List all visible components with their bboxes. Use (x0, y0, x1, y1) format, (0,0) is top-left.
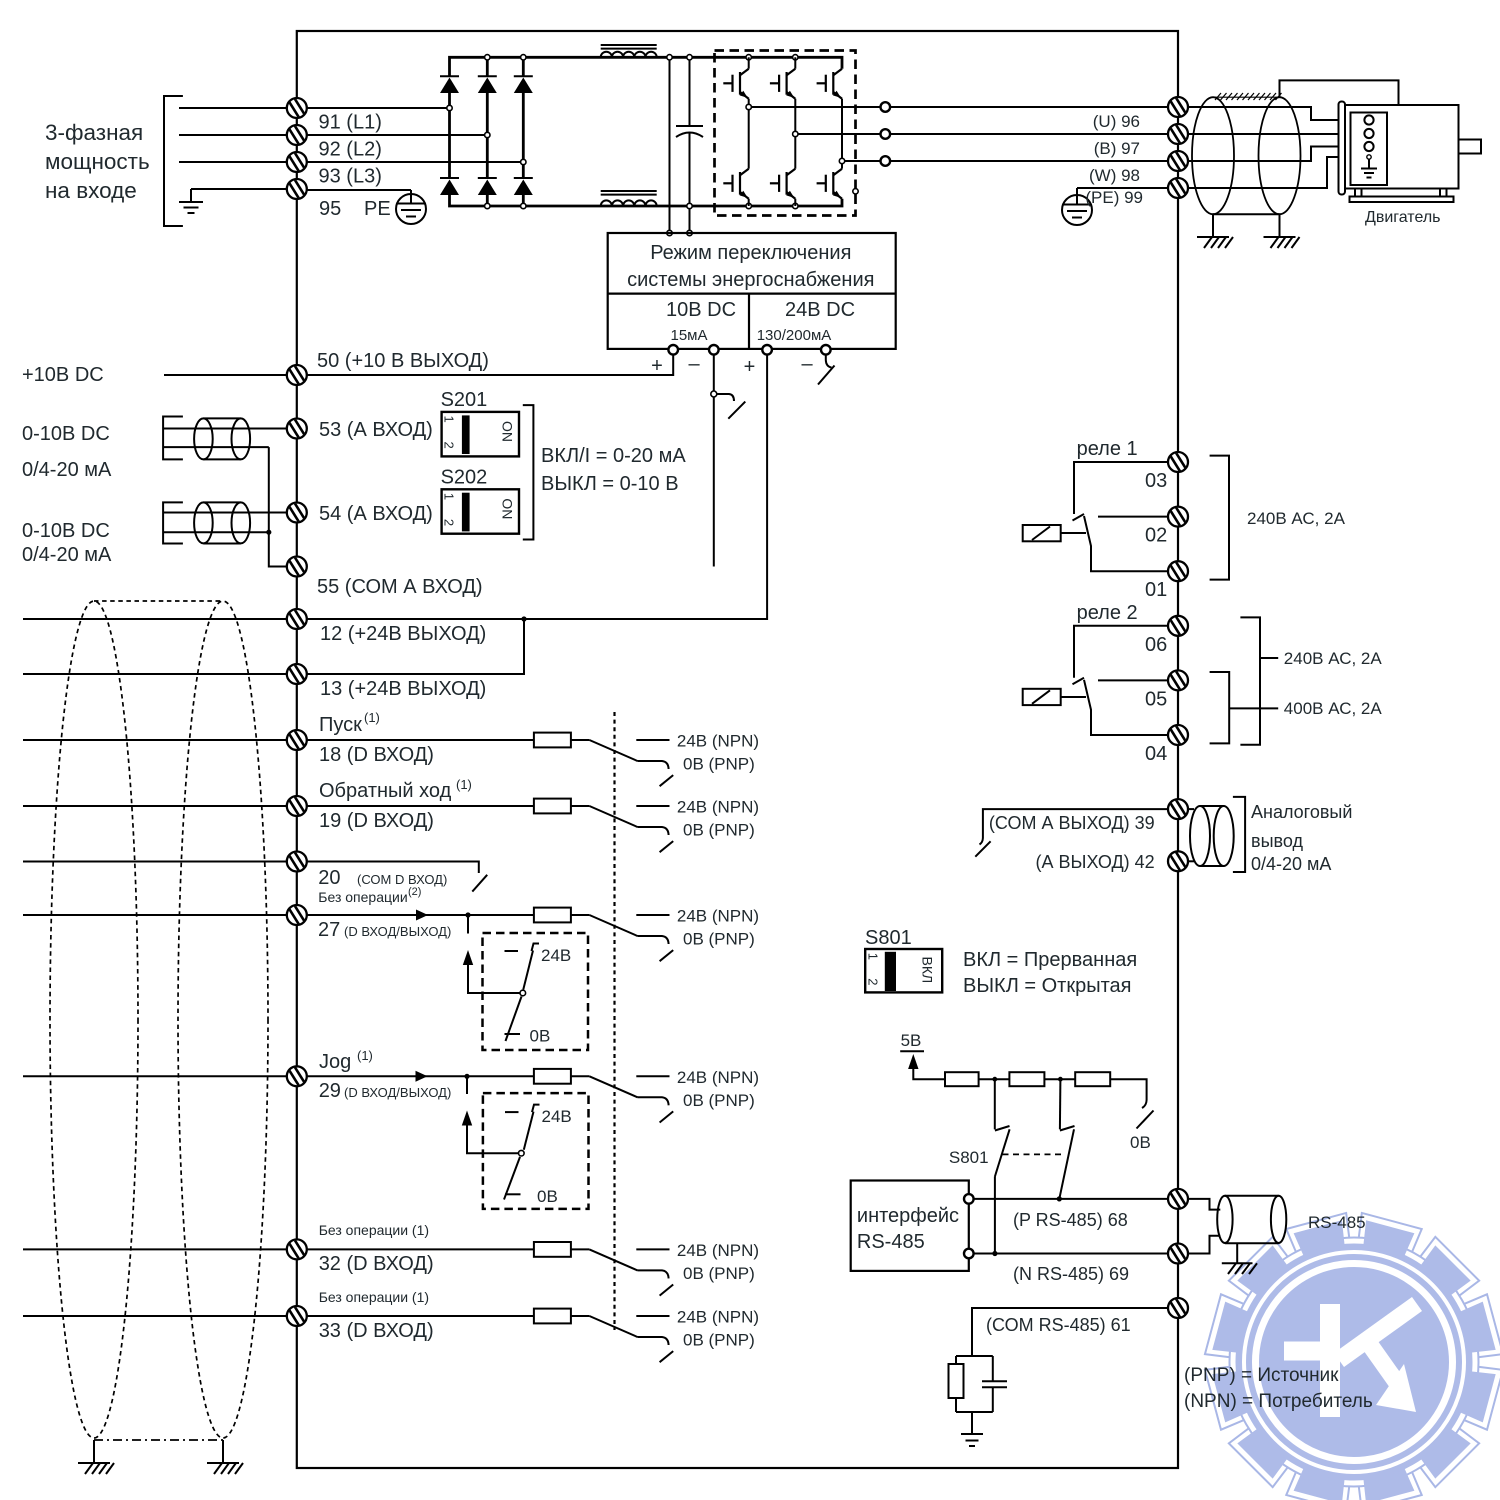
svg-text:24В: 24В (542, 1107, 572, 1126)
wire 33 after resistor (571, 1315, 590, 1317)
wire left 27 (23, 914, 287, 916)
wire 61 to RC (972, 1308, 1168, 1356)
svg-text:(D ВХОД/ВЫХОД): (D ВХОД/ВЫХОД) (344, 924, 451, 939)
dashed link S801 (1003, 1153, 1064, 1155)
wire left 18 (23, 739, 287, 741)
junction analog common (266, 530, 271, 535)
relay 2 pivot tick (1073, 678, 1085, 685)
label Obratny hod (319, 777, 472, 802)
wire output U phase (749, 106, 881, 108)
SMPS terminal 10V minus (709, 345, 719, 355)
analog pair2 shield cylinder (194, 502, 250, 543)
RS-485 interface box (851, 1181, 969, 1271)
wire U into motor (1188, 107, 1364, 120)
wire 27 after resistor (571, 914, 590, 916)
wire analog common vertical (269, 447, 287, 566)
wire 91 to rectifier (307, 107, 450, 109)
svg-text:(D ВХОД/ВЫХОД): (D ВХОД/ВЫХОД) (344, 1085, 451, 1100)
motor terminal box (1351, 113, 1388, 186)
SMPS terminal 24V minus (821, 345, 831, 355)
wire L2 input (179, 134, 287, 136)
wire 93 to rectifier (307, 161, 524, 163)
svg-text:240В АС, 2А: 240В АС, 2А (1247, 509, 1346, 528)
stub 27 PNP with break (638, 936, 674, 961)
wire 92 to rectifier (307, 134, 488, 136)
terminal 39 (1168, 799, 1188, 819)
node output U (746, 104, 751, 109)
terminal 06 (1168, 616, 1188, 636)
analog pair2 bracket (163, 502, 183, 543)
PE earth circle right (1062, 195, 1092, 225)
motor foot left (1355, 189, 1362, 197)
label Jog (319, 1048, 373, 1073)
wire U to terminal 96 (890, 106, 1168, 108)
svg-text:PE: PE (364, 198, 391, 220)
chassis ground shield right (1264, 237, 1300, 248)
motor foot right (1440, 189, 1447, 197)
svg-text:(W) 98: (W) 98 (1089, 166, 1140, 185)
svg-text:интерфейс: интерфейс (857, 1205, 959, 1227)
motor cable shield ellipse 1 (1192, 97, 1234, 214)
5V source (900, 1031, 945, 1079)
shield ground stub left (93, 1440, 95, 1463)
svg-text:+10В DC: +10В DC (22, 364, 104, 386)
svg-text:Без операции (1): Без операции (1) (319, 1222, 429, 1238)
svg-text:03: 03 (1145, 470, 1167, 492)
diode D3 bottom (514, 178, 533, 206)
svg-text:400В АС, 2А: 400В АС, 2А (1284, 699, 1383, 718)
wire 33 (307, 1315, 534, 1317)
wire 19 after resistor (571, 805, 590, 807)
svg-text:(1): (1) (357, 1048, 373, 1063)
wire V into motor (1188, 133, 1364, 135)
break circle on 10V minus wire (711, 391, 746, 419)
wire 68 to cable (1188, 1199, 1220, 1210)
terminal 03 (1168, 452, 1188, 472)
break hook 24V minus (818, 354, 835, 384)
RS-485 cable cylinder (1217, 1196, 1286, 1244)
svg-text:33 (D ВХОД): 33 (D ВХОД) (319, 1320, 434, 1342)
svg-text:1: 1 (866, 953, 881, 960)
wire 27 branch down (467, 915, 469, 934)
switch 29 contact 0V (505, 1193, 521, 1195)
relay 2 outer bracket (1240, 617, 1278, 744)
svg-text:(B) 97: (B) 97 (1094, 139, 1140, 158)
stub 18 NPN (636, 739, 669, 741)
svg-text:2: 2 (866, 978, 881, 985)
control cable shield dashed ellipse 1 (50, 601, 138, 1438)
wire W into motor (1188, 147, 1364, 162)
svg-text:реле 1: реле 1 (1077, 438, 1138, 460)
svg-text:Двигатель: Двигатель (1365, 209, 1441, 226)
svg-text:24В: 24В (541, 946, 571, 965)
svg-text:13 (+24В ВЫХОД): 13 (+24В ВЫХОД) (320, 678, 486, 700)
terminal 96 (1168, 97, 1188, 117)
terminal 97 (1168, 124, 1188, 144)
svg-text:RS-485: RS-485 (1308, 1213, 1366, 1232)
wire 69 to cable (1188, 1236, 1220, 1254)
S201/S202 bracket (523, 405, 534, 539)
svg-text:91 (L1): 91 (L1) (319, 112, 382, 134)
svg-text:50 (+10 В ВЫХОД): 50 (+10 В ВЫХОД) (317, 350, 489, 372)
terminal 33 (287, 1306, 307, 1326)
terminal 92 (287, 125, 307, 145)
svg-text:20: 20 (318, 867, 340, 889)
svg-text:95: 95 (319, 198, 341, 220)
node output W (839, 158, 844, 163)
wire 10V plus to terminal 50 (307, 354, 673, 375)
motor body (1345, 105, 1459, 189)
wire L1 input (179, 107, 287, 109)
svg-text:ON: ON (500, 421, 516, 442)
switch box 27 dashed (483, 933, 589, 1050)
terminal 50 (287, 365, 307, 385)
node DC+ right (687, 55, 692, 60)
svg-text:0В: 0В (537, 1187, 558, 1206)
svg-text:10В DC: 10В DC (666, 299, 736, 321)
wire 18 after resistor (571, 739, 590, 741)
relay 1 coil (1023, 525, 1086, 541)
stub 19 NPN (636, 805, 669, 807)
svg-text:24В (NPN): 24В (NPN) (677, 1308, 759, 1327)
rectifier bottom bus (450, 195, 843, 206)
circle P output (964, 1194, 974, 1204)
svg-text:+: + (744, 356, 756, 378)
node DC- bottom (687, 203, 692, 208)
svg-text:Jog: Jog (319, 1051, 351, 1073)
svg-text:(СОМ А ВЫХОД) 39: (СОМ А ВЫХОД) 39 (989, 813, 1155, 833)
transistor IGBT bottom col3 (817, 161, 842, 199)
node DC+ left (667, 55, 672, 60)
motor shaft (1459, 140, 1482, 154)
wire 19 diagonal (589, 806, 637, 827)
label Bez operacii 27 (318, 886, 421, 905)
svg-text:S801: S801 (949, 1148, 989, 1167)
terminal 05 (1168, 670, 1188, 690)
diode D2 bottom (478, 178, 497, 206)
wire 42 to cylinder (1188, 860, 1194, 862)
svg-text:Режим переключения: Режим переключения (650, 242, 851, 264)
terminal 68 (1168, 1189, 1188, 1209)
terminal 53 (287, 418, 307, 438)
junction 13-12 (521, 616, 526, 621)
wire 39 to cylinder (1188, 808, 1194, 810)
node 93-rectifier (521, 159, 526, 164)
chassis ground shield left (1197, 237, 1233, 248)
relay 1 wiper (1084, 516, 1168, 571)
junction N switch1 (992, 1251, 997, 1256)
ground input earth (179, 189, 203, 213)
switch 27 contact 0V (505, 1033, 521, 1035)
control cable shield dashed ellipse 2 (178, 601, 268, 1438)
svg-text:15мА: 15мА (670, 327, 707, 344)
svg-text:системы энергоснабжения: системы энергоснабжения (627, 269, 874, 291)
svg-text:реле 2: реле 2 (1077, 602, 1138, 624)
svg-text:0-10В DC: 0-10В DC (22, 520, 110, 542)
motor cable shield top hatched (1213, 93, 1282, 100)
PE earth circle (307, 190, 426, 224)
switch box 29 dashed (483, 1093, 589, 1209)
resistor R2 (1009, 1072, 1044, 1086)
DC link wire right with capacitor (676, 57, 703, 233)
svg-text:0/4-20 мА: 0/4-20 мА (22, 459, 112, 481)
svg-text:ВЫКЛ = Открытая: ВЫКЛ = Открытая (963, 975, 1131, 997)
terminal 99 (1168, 178, 1188, 198)
input bracket (164, 96, 183, 226)
node inverter bottom col1 (746, 203, 751, 208)
terminal 19 (287, 796, 307, 816)
wire output W phase (842, 160, 881, 162)
svg-text:(1): (1) (364, 710, 380, 725)
svg-text:Без операции: Без операции (318, 889, 407, 905)
label analog output (1251, 802, 1352, 874)
stub 18 PNP with break (638, 761, 674, 786)
wire N RS-485 (973, 1253, 1168, 1255)
transistor IGBT top col1 (723, 57, 748, 107)
svg-text:24В (NPN): 24В (NPN) (677, 907, 759, 926)
terminal 27 (287, 905, 307, 925)
switch S801-2 (1059, 1079, 1074, 1199)
relay 2 inner bracket (1210, 672, 1279, 743)
arrow up 27 branch (463, 950, 521, 993)
svg-text:24В DC: 24В DC (785, 299, 855, 321)
inductor L-top (601, 45, 657, 57)
svg-text:(NPN) = Потребитель: (NPN) = Потребитель (1184, 1391, 1373, 1412)
inductor L-bottom (601, 191, 657, 206)
wire +10V DC lead (164, 374, 287, 376)
analog out cable cylinder (1190, 806, 1234, 866)
RC network (949, 1356, 1008, 1412)
wire P RS-485 (973, 1198, 1168, 1200)
svg-text:S202: S202 (441, 466, 488, 488)
node inverter bottom col2 (793, 203, 798, 208)
wire left 20 (23, 861, 287, 863)
node top bus D2 (485, 55, 490, 60)
node SMPS left (667, 230, 672, 235)
resistor 19 (534, 799, 571, 814)
svg-text:130/200мА: 130/200мА (757, 327, 832, 344)
svg-text:–: – (801, 353, 813, 375)
analog pair2 wire bottom (164, 531, 269, 533)
svg-text:(2): (2) (408, 886, 421, 898)
svg-text:2: 2 (442, 519, 457, 526)
stub 27 NPN (636, 914, 669, 916)
wire W to terminal 98 (890, 160, 1168, 162)
switch S202 (441, 466, 519, 533)
wire 18 (307, 739, 534, 741)
wire left 12 (23, 618, 287, 620)
label 3-phase input power (45, 120, 150, 203)
svg-text:1: 1 (442, 493, 457, 500)
rectifier top bus (450, 57, 843, 76)
svg-text:24В (NPN): 24В (NPN) (677, 732, 759, 751)
node inverter top col2 (793, 55, 798, 60)
resistor R1 pullup (945, 1072, 979, 1086)
svg-text:19 (D ВХОД): 19 (D ВХОД) (319, 810, 434, 832)
svg-text:24В (NPN): 24В (NPN) (677, 1068, 759, 1087)
relay 1 contact NC branch (1074, 462, 1168, 514)
resistor 18 (534, 733, 571, 748)
svg-text:29: 29 (319, 1080, 341, 1102)
wire left 13 (23, 673, 287, 675)
switch S801 dip (865, 927, 942, 992)
svg-text:0В: 0В (530, 1027, 551, 1046)
circle output V (881, 129, 891, 139)
wire 33 diagonal (589, 1316, 637, 1337)
node top bus D3 (521, 55, 526, 60)
terminal 91 (287, 98, 307, 118)
stub 32 PNP with break (638, 1270, 674, 1295)
svg-text:53 (А ВХОД): 53 (А ВХОД) (319, 419, 433, 441)
wire left 29 (23, 1075, 287, 1077)
control shield top dashed line (94, 600, 223, 602)
wire 19 (307, 805, 534, 807)
wire 29 branch down (466, 1076, 468, 1094)
diode D2 top (478, 57, 497, 178)
terminal 98 (1168, 151, 1188, 171)
shield ground stub right (222, 1440, 224, 1463)
junction R1-R2 (992, 1077, 997, 1082)
resistor R3 (1075, 1072, 1110, 1086)
transistor IGBT top col2 (770, 57, 795, 134)
svg-text:вывод: вывод (1251, 831, 1303, 851)
dashed separator vertical (613, 712, 615, 1330)
terminal 20 (287, 851, 307, 871)
svg-text:на входе: на входе (45, 178, 137, 203)
motor ground (1361, 155, 1377, 178)
svg-text:(P RS-485) 68: (P RS-485) 68 (1013, 1210, 1128, 1230)
junction 29 (464, 1074, 469, 1079)
motor flange (1339, 102, 1346, 195)
terminal 18 (287, 730, 307, 750)
svg-text:+: + (651, 355, 663, 377)
stub 29 NPN (636, 1075, 669, 1077)
label 20 (318, 867, 447, 889)
stub 19 PNP with break (638, 827, 674, 852)
analog out bracket (1233, 797, 1245, 872)
wire 29 diagonal (589, 1076, 637, 1097)
terminal 01 (1168, 561, 1188, 581)
terminal 61 (1168, 1298, 1188, 1318)
control shield bottom dash-dot line (94, 1439, 223, 1441)
relay 1 bracket (1210, 456, 1229, 580)
svg-text:(СОМ RS-485) 61: (СОМ RS-485) 61 (986, 1315, 1131, 1335)
stub 33 PNP with break (638, 1337, 674, 1362)
terminal 95 (287, 179, 307, 199)
motor terminal V (1364, 129, 1373, 138)
SMPS terminal 24V plus (762, 345, 772, 355)
wire 10V minus to terminal 55 line (713, 354, 715, 566)
circle N output (964, 1249, 974, 1259)
circle output W (881, 156, 891, 166)
svg-text:04: 04 (1145, 743, 1167, 765)
switch 29 lever (504, 1112, 534, 1200)
svg-text:05: 05 (1145, 688, 1167, 710)
svg-text:0В (PNP): 0В (PNP) (683, 1264, 755, 1283)
motor cable shield bottom (1213, 213, 1280, 215)
node output V (793, 131, 798, 136)
wire PE input (191, 188, 287, 190)
label 27 (318, 919, 451, 941)
label interface RS-485 (857, 1205, 959, 1253)
svg-text:32 (D ВХОД): 32 (D ВХОД) (319, 1253, 434, 1275)
motor terminal U (1364, 115, 1373, 124)
svg-text:0В (PNP): 0В (PNP) (683, 930, 755, 949)
analog pair1 shield cylinder (194, 418, 250, 459)
svg-text:ON: ON (500, 498, 516, 519)
svg-text:(1): (1) (456, 777, 472, 792)
transistor IGBT bottom col2 (770, 134, 795, 206)
terminal 69 (1168, 1243, 1188, 1263)
svg-text:92 (L2): 92 (L2) (319, 139, 382, 161)
resistor 29 (534, 1069, 571, 1084)
terminal 29 (287, 1066, 307, 1086)
terminal 04 (1168, 725, 1188, 745)
drive enclosure frame (297, 31, 1178, 1468)
analog pair2 wire top (164, 512, 287, 514)
terminal 93 (287, 152, 307, 172)
wire L3 input (179, 161, 287, 163)
svg-text:2: 2 (442, 442, 457, 449)
analog pair1 bracket (163, 417, 183, 460)
resistor 33 (534, 1309, 571, 1324)
wire 32 (307, 1248, 534, 1250)
svg-text:1: 1 (442, 416, 457, 423)
switch S201 (441, 389, 519, 456)
wire R3 to 0V break (1110, 1079, 1153, 1128)
motor terminal W (1364, 142, 1373, 151)
shield ground stub left (1212, 214, 1214, 237)
node SMPS right (687, 230, 692, 235)
wire 29 (307, 1075, 534, 1077)
wire 24V plus to terminal 12 line (307, 354, 767, 619)
svg-text:3-фазная: 3-фазная (45, 120, 143, 145)
resistor 27 (534, 908, 571, 923)
wire 39 with break (975, 809, 1168, 857)
chassis ground control left (78, 1463, 114, 1474)
motor base plate (1350, 197, 1454, 203)
wire left 19 (23, 805, 287, 807)
wire R1-R2 (979, 1078, 1010, 1080)
transistor IGBT bottom col1 (723, 107, 748, 206)
junction 27 (465, 912, 470, 917)
svg-text:240В АС, 2А: 240В АС, 2А (1284, 649, 1383, 668)
label 29 (319, 1080, 452, 1102)
arrow on wire 29 (416, 1071, 428, 1082)
svg-text:S801: S801 (865, 927, 912, 949)
terminal 55 (287, 556, 307, 576)
diode D1 top (440, 76, 459, 178)
svg-text:24В (NPN): 24В (NPN) (677, 1241, 759, 1260)
motor cable shield ellipse 2 (1259, 97, 1301, 214)
watermark gear logo (1175, 1183, 1500, 1500)
svg-text:0В: 0В (1130, 1133, 1151, 1152)
wire shield to motor housing over top (1280, 80, 1399, 104)
chassis ground control right (207, 1463, 243, 1474)
wire PE to terminal 99 (1077, 188, 1168, 195)
svg-text:18 (D ВХОД): 18 (D ВХОД) (319, 744, 434, 766)
diode D1 bottom (440, 178, 459, 195)
node bottom bus D2 (485, 203, 490, 208)
terminal 42 (1168, 851, 1188, 871)
relay 2 contact NC branch (1074, 626, 1168, 678)
terminal 13 (287, 664, 307, 684)
svg-text:0/4-20 мА: 0/4-20 мА (1251, 854, 1331, 874)
circle on inverter box edge (853, 189, 858, 194)
wire 27 (307, 914, 534, 916)
inverter dashed box (715, 51, 856, 216)
analog pair1 wire top (164, 428, 287, 430)
